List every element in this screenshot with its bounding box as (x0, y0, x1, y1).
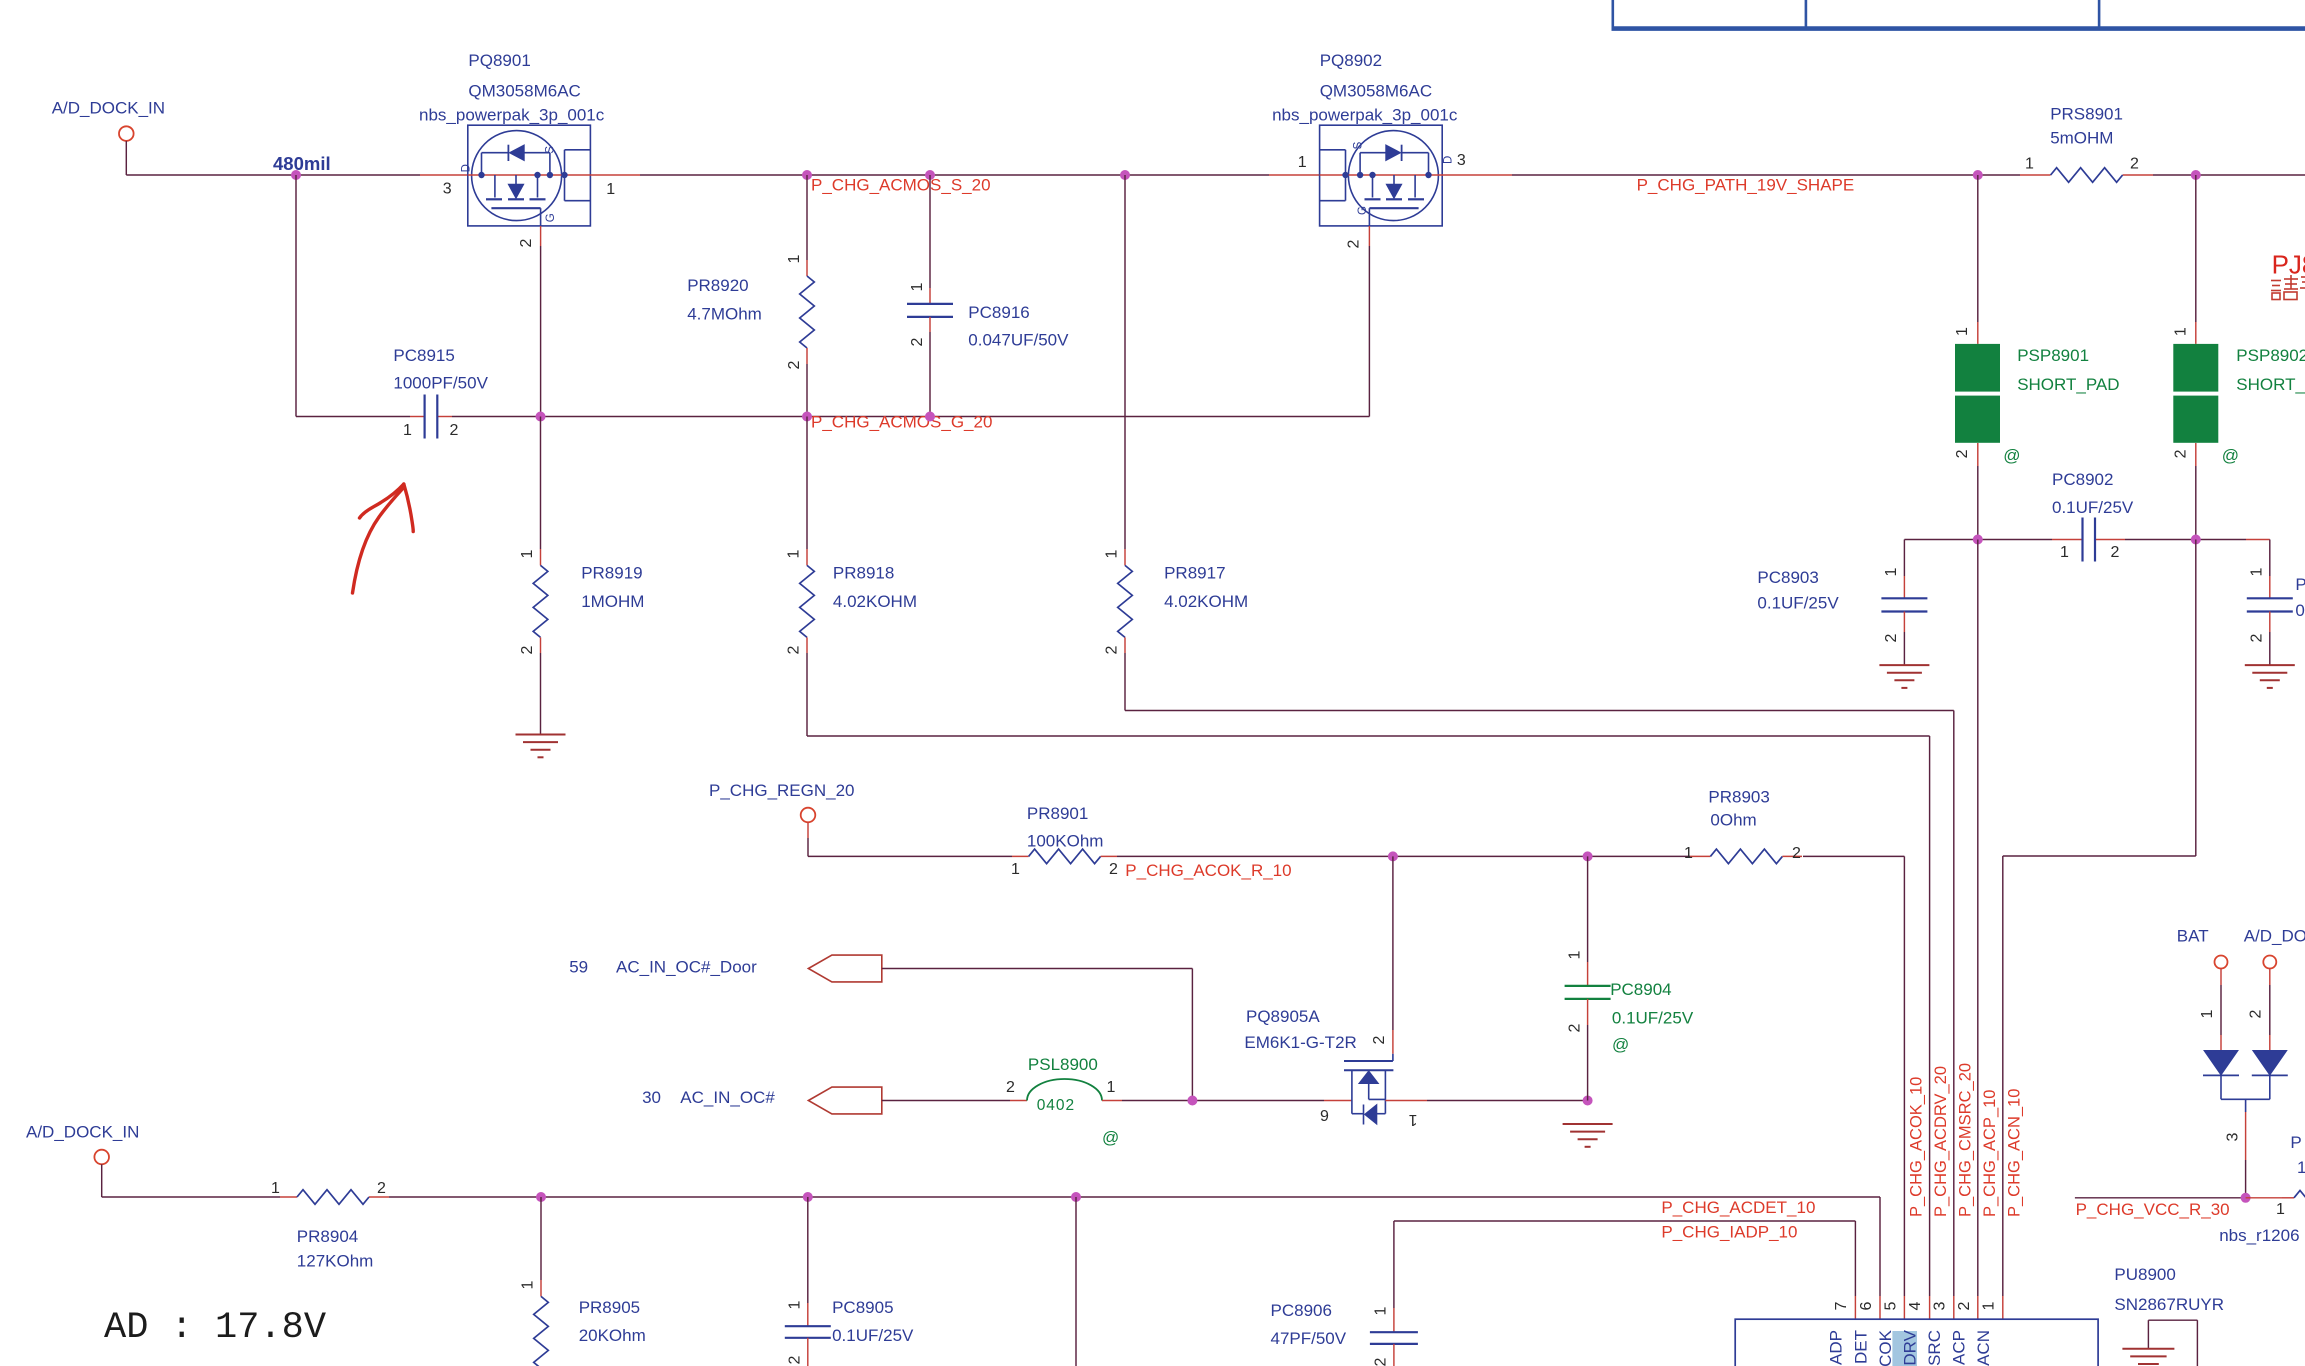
svg-text:PSP8902: PSP8902 (2236, 346, 2305, 365)
svg-text:P_CHG_ACDRV_20: P_CHG_ACDRV_20 (1932, 1066, 1950, 1217)
wire PQ8902 gate (pin2) down to G net (1368, 226, 1370, 246)
svg-text:2: 2 (1104, 645, 1121, 654)
svg-text:1: 1 (519, 549, 536, 558)
wire to PR8904 (102, 1196, 280, 1198)
wire P_CHG_ACDRV_20 (PR8918 pin2 to PU8900 pin4) (807, 735, 1930, 737)
svg-text:A/D_DOCK_IN: A/D_DOCK_IN (52, 99, 165, 118)
svg-text:PR8920: PR8920 (687, 276, 748, 295)
diode D1 (BAT) (2220, 969, 2222, 986)
svg-text:4.7MOhm: 4.7MOhm (687, 305, 762, 324)
svg-text:4.02KOHM: 4.02KOHM (1164, 592, 1248, 611)
ground at PQ8905A source (1563, 1123, 1613, 1125)
svg-text:1: 1 (1566, 950, 1583, 959)
svg-text:S: S (545, 146, 557, 154)
svg-text:1: 1 (1684, 845, 1693, 862)
svg-text:5mOHM: 5mOHM (2050, 129, 2113, 148)
svg-text:@: @ (2222, 446, 2239, 465)
svg-text:P_CHG_CMSRC_20: P_CHG_CMSRC_20 (1956, 1063, 1974, 1217)
svg-text:3: 3 (2224, 1132, 2241, 1141)
svg-text:127KOhm: 127KOhm (297, 1252, 374, 1271)
svg-text:2: 2 (1956, 1301, 1973, 1310)
svg-text:2: 2 (1954, 449, 1971, 458)
svg-text:DET: DET (1851, 1330, 1870, 1364)
svg-text:@: @ (2003, 446, 2020, 465)
wire OC# flag to PSL8900 (882, 1100, 1010, 1102)
svg-text:2: 2 (1566, 1023, 1583, 1032)
ground below PC8903 (1879, 664, 1929, 666)
svg-text:1: 1 (1954, 327, 1971, 336)
svg-text:4: 4 (1907, 1301, 1924, 1310)
svg-text:AD : 17.8V: AD : 17.8V (104, 1307, 326, 1349)
svg-text:D: D (460, 164, 472, 172)
svg-text:100KOhm: 100KOhm (1027, 832, 1104, 851)
svg-text:ADP: ADP (1826, 1330, 1845, 1365)
svg-text:@: @ (1102, 1128, 1119, 1147)
svg-text:3: 3 (1457, 152, 1466, 169)
short pad PSP8902 SHORT_PAD (2195, 175, 2197, 322)
svg-text:2: 2 (2130, 156, 2139, 173)
svg-text:G: G (1357, 206, 1369, 215)
wire PSL8900 to PQ8905A gate (1102, 1100, 1122, 1102)
svg-text:nbs_powerpak_3p_001c: nbs_powerpak_3p_001c (1272, 106, 1458, 125)
wire ACN from right junction down and over to PU8900 pin1 (2195, 540, 2197, 857)
svg-text:SHORT_PAD: SHORT_PAD (2236, 375, 2305, 394)
svg-text:A/D_DOCK_IN: A/D_DOCK_IN (26, 1123, 139, 1142)
wire P_CHG_ACOK_R_10 (1101, 855, 1117, 857)
svg-text:1: 1 (271, 1180, 280, 1197)
chinese note (clipped) (2271, 280, 2281, 282)
svg-text:AC_IN_OC#: AC_IN_OC# (680, 1088, 775, 1107)
svg-text:G: G (545, 213, 557, 222)
wire P_CHG_PATH_19V_SHAPE (PQ8902 pin3 to right edge) (1442, 174, 1512, 176)
svg-text:2: 2 (377, 1180, 386, 1197)
svg-text:PSP8901: PSP8901 (2017, 346, 2089, 365)
svg-text:480mil: 480mil (273, 153, 331, 174)
svg-text:47PF/50V: 47PF/50V (1271, 1329, 1347, 1348)
svg-text:1: 1 (1104, 549, 1121, 558)
svg-text:ACN: ACN (1974, 1330, 1993, 1366)
svg-text:PC8905: PC8905 (832, 1298, 893, 1317)
svg-text:PR8919: PR8919 (581, 564, 642, 583)
svg-text:PR8901: PR8901 (1027, 804, 1088, 823)
svg-text:P_CHG_ACOK_R_10: P_CHG_ACOK_R_10 (1125, 861, 1291, 880)
svg-text:1: 1 (2276, 1201, 2285, 1218)
svg-text:1000PF/50V: 1000PF/50V (393, 374, 488, 393)
svg-text:2: 2 (518, 238, 535, 247)
svg-text:AC_IN_OC#_Door: AC_IN_OC#_Door (616, 958, 757, 977)
svg-text:2: 2 (2248, 633, 2265, 642)
svg-text:3: 3 (1931, 1301, 1948, 1310)
svg-text:QM3058M6AC: QM3058M6AC (468, 82, 580, 101)
svg-text:1: 1 (1883, 567, 1900, 576)
wire ACP down from junction (1977, 540, 1979, 1297)
wire P_CHG_IADP_10 (1394, 1220, 1856, 1222)
svg-text:PC8916: PC8916 (968, 303, 1029, 322)
svg-text:PC8904: PC8904 (1610, 980, 1671, 999)
svg-text:1: 1 (1408, 1111, 1417, 1128)
svg-text:PR8903: PR8903 (1708, 788, 1769, 807)
wire 480mil down to G net (295, 175, 297, 417)
svg-text:PQ8905A: PQ8905A (1246, 1007, 1320, 1026)
wire ACOK down to PU8900 pin5 (1903, 856, 1905, 1296)
svg-text:2: 2 (2111, 544, 2120, 561)
svg-text:1: 1 (606, 181, 615, 198)
svg-text:@: @ (1612, 1035, 1629, 1054)
svg-text:SHORT_PAD: SHORT_PAD (2017, 375, 2119, 394)
diode common cathode join (2220, 1075, 2222, 1099)
wire PQ8905A pin2 up to ACOK junction (1392, 856, 1394, 1030)
svg-text:PSL8900: PSL8900 (1028, 1055, 1098, 1074)
svg-text:P_CHG_ACMOS_G_20: P_CHG_ACMOS_G_20 (811, 413, 992, 432)
short pad PSP8901 SHORT_PAD (1977, 175, 1979, 322)
svg-text:20KOhm: 20KOhm (579, 1326, 646, 1345)
svg-text:P_CHG_ACN_10: P_CHG_ACN_10 (2006, 1089, 2024, 1217)
svg-text:PQ8902: PQ8902 (1320, 51, 1382, 70)
diode D2 (A/D_DOCK) (2269, 969, 2271, 986)
svg-text:2: 2 (786, 645, 803, 654)
svg-text:2: 2 (2172, 449, 2189, 458)
svg-text:1MOHM: 1MOHM (581, 592, 644, 611)
svg-text:1: 1 (909, 282, 926, 291)
svg-text:4.02KOHM: 4.02KOHM (833, 592, 917, 611)
svg-text:2: 2 (519, 645, 536, 654)
svg-text:2: 2 (1109, 861, 1118, 878)
svg-text:1: 1 (2172, 327, 2189, 336)
svg-text:9: 9 (1320, 1108, 1329, 1125)
wire P_CHG_ACMOS_G_20 (296, 416, 410, 418)
junction dots on S net (802, 170, 812, 180)
svg-text:0.1UF/25V: 0.1UF/25V (1757, 594, 1839, 613)
svg-text:PR8904: PR8904 (297, 1227, 358, 1246)
svg-text:2: 2 (1883, 633, 1900, 642)
svg-text:1: 1 (2060, 544, 2069, 561)
svg-text:PC8915: PC8915 (393, 346, 454, 365)
svg-text:0: 0 (2295, 601, 2304, 620)
svg-text:0.1UF/25V: 0.1UF/25V (832, 1326, 914, 1345)
PU8900 thermal pad wire and ground (2147, 1320, 2149, 1349)
svg-text:1: 1 (786, 549, 803, 558)
svg-text:59: 59 (569, 958, 588, 977)
svg-text:P_CHG_ACOK_10: P_CHG_ACOK_10 (1908, 1077, 1926, 1217)
svg-text:BAT: BAT (2177, 927, 2209, 946)
svg-text:7: 7 (1833, 1301, 1850, 1310)
wire PQ8901 gate (pin2) down (540, 208, 542, 226)
wire P_CHG_ACMOS_S_20 (PQ8901 pin1 to PQ8902 pin1) (590, 174, 640, 176)
svg-text:PR8918: PR8918 (833, 564, 894, 583)
title block border (top right) (1612, 0, 1615, 27)
svg-text:PR8905: PR8905 (579, 1298, 640, 1317)
svg-text:QM3058M6AC: QM3058M6AC (1320, 82, 1432, 101)
svg-text:nbs_powerpak_3p_001c: nbs_powerpak_3p_001c (419, 106, 605, 125)
svg-text:1: 1 (1107, 1079, 1116, 1096)
svg-text:P: P (2295, 575, 2305, 594)
svg-text:0.047UF/50V: 0.047UF/50V (968, 331, 1069, 350)
svg-text:P_CHG_ACMOS_S_20: P_CHG_ACMOS_S_20 (811, 176, 991, 195)
svg-text:S: S (1353, 141, 1365, 149)
wire PQ8905A source to ground junction (1385, 1100, 1427, 1102)
svg-text:0Ohm: 0Ohm (1710, 811, 1756, 830)
svg-text:PR8917: PR8917 (1164, 564, 1225, 583)
svg-text:2: 2 (1371, 1035, 1388, 1044)
capacitor PC8904 0.1UF/25V (green, vertical) (1587, 856, 1589, 962)
svg-text:P: P (2290, 1133, 2301, 1152)
wire Door flag to junction (882, 968, 1193, 970)
svg-text:P_CHG_IADP_10: P_CHG_IADP_10 (1661, 1223, 1797, 1242)
ground below PR8919 (516, 734, 566, 736)
svg-text:1: 1 (2297, 1158, 2305, 1177)
svg-text:D: D (1443, 156, 1455, 164)
svg-text:1: 1 (1981, 1301, 1998, 1310)
svg-text:2: 2 (1373, 1357, 1390, 1366)
svg-text:COK: COK (1876, 1329, 1895, 1366)
svg-text:1: 1 (403, 422, 412, 439)
svg-text:1: 1 (2025, 156, 2034, 173)
svg-text:P_CHG_ACDET_10: P_CHG_ACDET_10 (1661, 1198, 1815, 1217)
svg-text:5: 5 (1883, 1301, 1900, 1310)
wire PC8903/PC8902 rail (1904, 539, 2052, 541)
svg-text:2: 2 (1006, 1079, 1015, 1096)
wire IADP stub down from junction (1075, 1197, 1077, 1366)
svg-text:P_CHG_REGN_20: P_CHG_REGN_20 (709, 781, 855, 800)
svg-text:1: 1 (787, 1300, 804, 1309)
wire P_CHG_ACDET_10 rail (369, 1196, 389, 1198)
svg-text:EM6K1-G-T2R: EM6K1-G-T2R (1244, 1033, 1356, 1052)
ground below right cap (2245, 664, 2295, 666)
svg-text:2: 2 (2248, 1009, 2265, 1018)
wire P_CHG_VCC_R_30 (2075, 1197, 2246, 1199)
svg-text:2: 2 (786, 360, 803, 369)
svg-text:0402: 0402 (1037, 1097, 1075, 1114)
highlight on DRV pin name (1892, 1331, 1917, 1366)
svg-text:SRC: SRC (1925, 1330, 1944, 1366)
svg-text:PQ8901: PQ8901 (468, 51, 530, 70)
svg-text:P_CHG_PATH_19V_SHAPE: P_CHG_PATH_19V_SHAPE (1637, 176, 1855, 195)
wire REGN to PR8901 (808, 855, 1012, 857)
svg-text:1: 1 (786, 254, 803, 263)
svg-text:1: 1 (1373, 1306, 1390, 1315)
svg-text:A/D_DOCK_IN: A/D_DOCK_IN (2244, 927, 2305, 946)
svg-text:2: 2 (1346, 239, 1363, 248)
junction dots on G net (536, 412, 546, 422)
wire PR8917 pin1 up to S net (1124, 175, 1126, 549)
svg-text:PC8903: PC8903 (1757, 568, 1818, 587)
capacitor PC89xx right edge (vertical, clipped) (2269, 540, 2271, 577)
svg-text:1: 1 (2248, 567, 2265, 576)
svg-text:30: 30 (642, 1088, 661, 1107)
svg-text:PRS8901: PRS8901 (2050, 105, 2123, 124)
svg-text:PU8900: PU8900 (2114, 1265, 2175, 1284)
svg-text:6: 6 (1858, 1301, 1875, 1310)
svg-text:P_CHG_VCC_R_30: P_CHG_VCC_R_30 (2076, 1200, 2230, 1219)
svg-text:0.1UF/25V: 0.1UF/25V (1612, 1009, 1694, 1028)
svg-text:2: 2 (787, 1355, 804, 1364)
svg-text:2: 2 (450, 422, 459, 439)
svg-text:1: 1 (520, 1280, 537, 1289)
svg-text:nbs_r1206: nbs_r1206 (2219, 1226, 2299, 1245)
svg-text:DRV: DRV (1901, 1329, 1920, 1365)
svg-text:PC8902: PC8902 (2052, 470, 2113, 489)
svg-text:P_CHG_ACP_10: P_CHG_ACP_10 (1981, 1090, 1999, 1217)
svg-text:3: 3 (443, 181, 452, 198)
svg-text:1: 1 (1011, 861, 1020, 878)
hand-drawn red arrow annotation (353, 484, 414, 593)
svg-text:1: 1 (1298, 154, 1307, 171)
svg-text:0.1UF/25V: 0.1UF/25V (2052, 498, 2134, 517)
wire pin3 down to VCC junction (2245, 1099, 2247, 1112)
svg-text:1: 1 (2199, 1009, 2216, 1018)
wire A/D_DOCK_IN to PQ8901 pin3 (125, 141, 127, 175)
svg-text:PC8906: PC8906 (1271, 1301, 1332, 1320)
svg-text:PJ8900: PJ8900 (2272, 249, 2305, 279)
wire P_CHG_CMSRC_20 (PR8917 pin2 to PU8900 pin3) (1125, 710, 1954, 712)
svg-text:ACP: ACP (1949, 1330, 1968, 1365)
resistor at right edge (clipped) (2282, 1197, 2294, 1199)
svg-text:2: 2 (909, 337, 926, 346)
svg-text:SN2867RUYR: SN2867RUYR (2114, 1295, 2224, 1314)
svg-text:2: 2 (1792, 845, 1801, 862)
